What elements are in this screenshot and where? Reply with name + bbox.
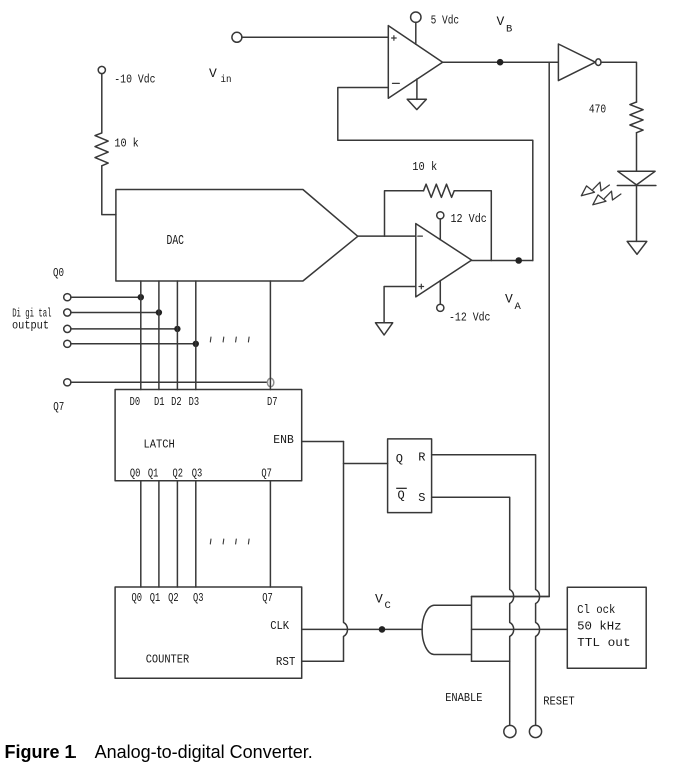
svg-text:Q2: Q2 xyxy=(173,466,184,480)
wire xyxy=(71,381,268,383)
terminal 5Vdc xyxy=(411,12,421,22)
wire xyxy=(71,343,196,345)
terminal -12Vdc xyxy=(437,304,444,311)
terminal -10Vdc xyxy=(98,66,105,73)
wire U2 plus input xyxy=(384,287,416,323)
wire DAC pin D3 xyxy=(195,281,197,390)
LED light arrow 2 xyxy=(604,191,621,200)
terminal digital Q2 xyxy=(64,325,71,332)
wire 5V stub xyxy=(415,22,417,44)
wire DAC pin D1 xyxy=(158,281,160,390)
AND gate U8 xyxy=(422,597,471,662)
junction dot xyxy=(174,326,180,332)
wire Vin to comparator + xyxy=(242,36,388,38)
svg-text:Q7: Q7 xyxy=(261,466,272,480)
ground U1 xyxy=(407,99,426,109)
wire U2 output VA xyxy=(472,260,533,262)
wire latch Q0 to counter xyxy=(140,481,142,587)
svg-text:V: V xyxy=(375,591,383,606)
svg-text:RST: RST xyxy=(276,655,296,669)
wire feedback right xyxy=(454,191,491,261)
svg-text:TTL out: TTL out xyxy=(577,636,631,650)
terminal digital Q3 xyxy=(64,340,71,347)
wire CLK / VC xyxy=(302,628,422,630)
svg-text:DAC: DAC xyxy=(167,233,185,249)
counter U6 box xyxy=(115,587,302,678)
node VA dot xyxy=(515,257,522,264)
svg-text:LATCH: LATCH xyxy=(144,437,175,451)
terminal ENABLE xyxy=(504,725,516,737)
wire ENB to flip-flop Q xyxy=(302,441,344,443)
svg-text:S: S xyxy=(418,491,425,505)
wire LED to ground xyxy=(636,186,638,242)
ground U2 xyxy=(376,323,393,335)
svg-text:V: V xyxy=(209,66,217,81)
svg-text:V: V xyxy=(497,14,505,29)
wire DAC pin D2 xyxy=(176,281,178,390)
svg-text:Q7: Q7 xyxy=(53,400,64,414)
svg-text:Figure 1: Figure 1 xyxy=(5,742,75,762)
svg-text:-10 Vdc: -10 Vdc xyxy=(114,73,155,87)
terminal 12Vdc xyxy=(437,212,444,219)
node VB dot xyxy=(497,59,504,66)
ground LED xyxy=(627,241,647,254)
svg-text:Q: Q xyxy=(396,452,403,466)
wire xyxy=(71,296,141,298)
ellipsis ticks lower xyxy=(210,539,249,544)
latch U5 box xyxy=(115,390,302,481)
wire DAC pin D7 xyxy=(269,281,271,390)
wire DAC output xyxy=(358,235,416,237)
LED D1 xyxy=(618,171,655,185)
terminal RESET xyxy=(529,725,541,737)
wire xyxy=(101,74,103,133)
svg-text:in: in xyxy=(221,74,232,86)
junction dot xyxy=(138,294,144,300)
wire R input with hops xyxy=(432,455,540,725)
svg-text:B: B xyxy=(506,24,512,36)
ellipsis ticks upper xyxy=(210,337,249,342)
svg-text:D3: D3 xyxy=(189,395,200,409)
DAC U4 xyxy=(116,190,358,282)
svg-text:Q1: Q1 xyxy=(150,591,161,605)
wire latch Q1 to counter xyxy=(158,481,160,587)
wire Q to flip-flop xyxy=(344,463,388,465)
wire U1 minus input xyxy=(338,88,533,261)
wire feedback up xyxy=(385,191,424,236)
wire latch Q7 to counter xyxy=(269,481,271,587)
wire inverter out xyxy=(601,62,637,102)
svg-text:Cl ock: Cl ock xyxy=(577,603,615,617)
svg-text:Q1: Q1 xyxy=(148,466,159,480)
junction dot xyxy=(193,341,199,347)
wire VB vertical to AND gate xyxy=(472,62,550,596)
LED light arrow 1 xyxy=(593,182,610,191)
open junction circle D7 xyxy=(267,378,273,387)
wire DAC pin D0 xyxy=(140,281,142,390)
wire xyxy=(71,328,177,330)
svg-text:.: . xyxy=(73,742,78,762)
resistor R1 10k xyxy=(95,133,108,166)
op-amp U2 xyxy=(416,224,472,297)
node VC dot xyxy=(379,626,386,633)
wire to LED xyxy=(636,133,638,172)
svg-text:Q: Q xyxy=(398,488,405,502)
resistor R2 10k xyxy=(424,184,455,197)
clock box U9 xyxy=(567,587,646,668)
svg-text:A: A xyxy=(515,301,522,313)
svg-text:V: V xyxy=(505,292,513,307)
svg-text:Q0: Q0 xyxy=(53,266,64,280)
terminal digital Q7 xyxy=(64,379,71,386)
svg-text:50 kHz: 50 kHz xyxy=(577,620,622,634)
svg-text:D0: D0 xyxy=(130,395,141,409)
wire xyxy=(71,312,159,314)
wire ENB vertical with hop xyxy=(344,442,348,662)
wire U1 output xyxy=(443,61,558,63)
wire AND mid input from clock xyxy=(472,628,568,630)
svg-text:RESET: RESET xyxy=(543,695,575,709)
svg-text:Q7: Q7 xyxy=(262,591,273,605)
junction dot xyxy=(156,309,162,315)
svg-text:Analog-to-digital Converter.: Analog-to-digital Converter. xyxy=(95,742,313,762)
flip-flop U7 box xyxy=(388,439,432,513)
resistor R3 470 xyxy=(630,102,643,133)
terminal digital Q1 xyxy=(64,309,71,316)
svg-text:ENB: ENB xyxy=(273,433,294,447)
svg-text:D2: D2 xyxy=(171,395,182,409)
terminal Vin xyxy=(232,32,242,42)
svg-text:D1: D1 xyxy=(154,395,165,409)
svg-text:Q3: Q3 xyxy=(192,466,203,480)
wire RST xyxy=(302,660,344,662)
svg-text:R: R xyxy=(418,450,425,464)
terminal digital Q0 xyxy=(64,294,71,301)
svg-text:10 k: 10 k xyxy=(114,137,138,151)
wire latch Q3 to counter xyxy=(195,481,197,587)
wire U1 ground stub xyxy=(416,79,418,99)
wire xyxy=(102,166,116,215)
svg-text:470: 470 xyxy=(589,103,606,117)
svg-text:D7: D7 xyxy=(267,395,278,409)
wire latch Q2 to counter xyxy=(176,481,178,587)
wire S input with hops xyxy=(432,497,514,724)
inverter U3 xyxy=(558,44,595,81)
svg-text:Q2: Q2 xyxy=(168,591,179,605)
svg-text:10 k: 10 k xyxy=(412,160,437,174)
wire -12V stub xyxy=(439,281,441,304)
svg-text:5 Vdc: 5 Vdc xyxy=(431,14,460,28)
svg-text:Q3: Q3 xyxy=(193,591,204,605)
svg-text:Q0: Q0 xyxy=(132,591,143,605)
wire 12V stub xyxy=(439,219,441,240)
wire AND top input xyxy=(472,596,550,598)
svg-text:ENABLE: ENABLE xyxy=(445,691,482,705)
svg-text:COUNTER: COUNTER xyxy=(146,652,190,666)
op-amp U1 comparator xyxy=(388,26,442,99)
svg-text:Q0: Q0 xyxy=(130,466,141,480)
wire AND bottom input xyxy=(472,660,510,662)
svg-text:C: C xyxy=(385,600,391,612)
svg-text:-12 Vdc: -12 Vdc xyxy=(449,311,491,325)
svg-text:CLK: CLK xyxy=(270,619,290,633)
svg-text:12 Vdc: 12 Vdc xyxy=(451,212,487,226)
svg-text:output: output xyxy=(12,318,49,332)
